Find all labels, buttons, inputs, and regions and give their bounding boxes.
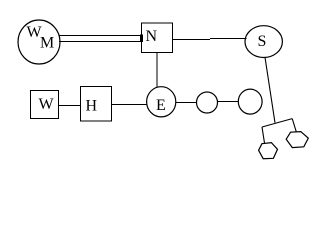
wire N to S (left half)	[173, 39, 210, 41]
node small circle 1	[197, 92, 218, 113]
wire small circle 1 to small circle 2	[218, 101, 239, 103]
svg-text:S: S	[258, 33, 267, 50]
connection nub where double line meets N	[140, 35, 143, 42]
svg-text:N: N	[146, 28, 158, 45]
node small circle 2	[238, 89, 262, 114]
wire E to small circle 1	[176, 102, 197, 104]
svg-text:M: M	[40, 35, 54, 52]
svg-text:E: E	[156, 97, 166, 114]
wire N to S (right half)	[210, 38, 247, 40]
left hexagon	[259, 143, 278, 159]
svg-text:W: W	[39, 96, 55, 113]
wire N to E	[156, 53, 158, 87]
node N (square)	[142, 23, 173, 53]
right hexagon	[286, 132, 308, 148]
svg-text:H: H	[86, 98, 98, 115]
wire crossbar left end down to left hexagon	[262, 127, 265, 143]
wire H to E	[112, 104, 147, 106]
node H (square)	[81, 86, 112, 121]
wire S down to junction	[265, 57, 275, 123]
node WM (circle)	[18, 20, 60, 64]
wire double line WM to N (top)	[59, 35, 141, 37]
wire crossbar	[262, 119, 292, 127]
wire W to H	[59, 105, 81, 107]
node S (circle)	[245, 26, 282, 58]
wire crossbar right end down to right hexagon	[292, 119, 296, 132]
node W (square)	[31, 91, 59, 119]
node E (circle)	[147, 87, 176, 117]
wire double line WM to N (bottom)	[59, 41, 141, 43]
